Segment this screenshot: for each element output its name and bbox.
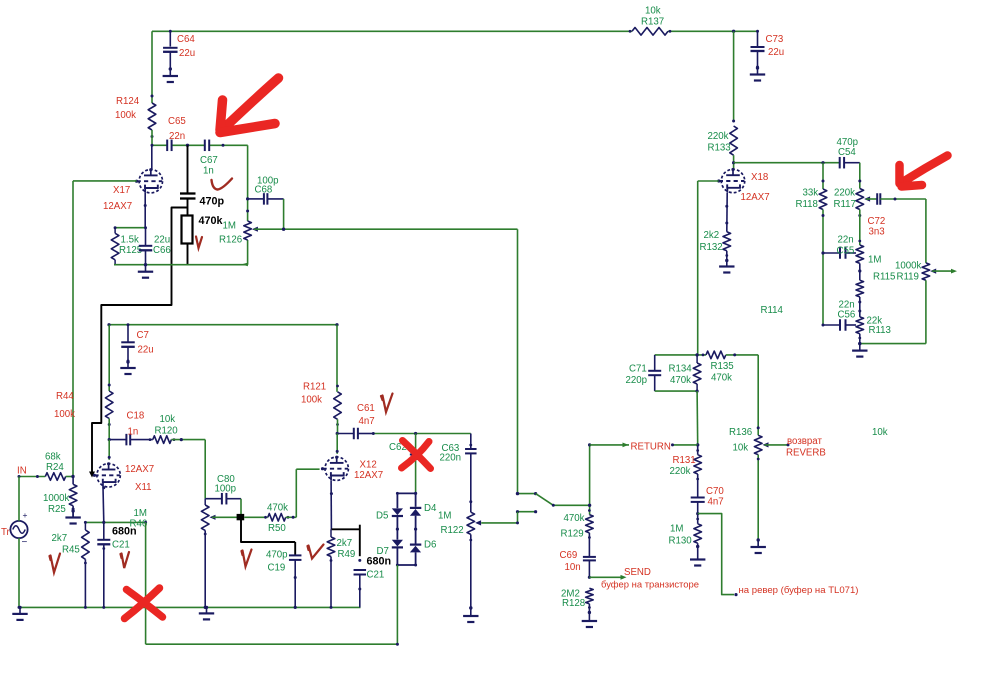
svg-text:12AX7: 12AX7 — [103, 201, 132, 212]
ground under R130 — [697, 547, 699, 560]
wire R24 to grid node — [66, 476, 73, 478]
svg-text:1M: 1M — [223, 221, 236, 232]
svg-text:C66: C66 — [153, 245, 171, 256]
wire R121 to C61 node — [337, 419, 339, 433]
annotation check near R45 — [50, 554, 61, 573]
svg-text:470k: 470k — [564, 513, 585, 524]
capacitor C64 — [169, 31, 171, 46]
wire R118 to C55 C56 — [822, 210, 824, 326]
svg-text:1n: 1n — [203, 166, 214, 177]
svg-text:R121: R121 — [303, 382, 326, 393]
svg-text:IN: IN — [17, 466, 27, 477]
annotation arrow top-left — [220, 78, 279, 133]
capacitor C7 — [127, 325, 129, 342]
svg-text:R45: R45 — [62, 545, 80, 556]
svg-text:22n: 22n — [169, 131, 185, 142]
wire B+ left drop — [151, 31, 153, 103]
wire feedback top row — [655, 354, 706, 356]
wire switch to R129 node — [589, 445, 591, 515]
resistor R130 — [697, 514, 699, 524]
wire rail to R121 — [336, 325, 338, 392]
wire RETURN — [590, 444, 698, 446]
resistor R132 — [723, 232, 731, 251]
svg-text:R131: R131 — [673, 455, 696, 466]
svg-text:C61: C61 — [357, 403, 375, 414]
capacitor C63 — [465, 448, 477, 450]
svg-text:1.5k: 1.5k — [121, 235, 139, 246]
svg-text:22u: 22u — [154, 235, 170, 246]
ground under C73 — [757, 68, 759, 75]
svg-text:10k: 10k — [160, 414, 176, 425]
svg-text:220k: 220k — [834, 188, 855, 199]
potentiometer R119 — [922, 263, 930, 280]
resistor R113 — [856, 317, 864, 334]
svg-text:R137: R137 — [641, 17, 664, 28]
diode D4 — [415, 493, 417, 506]
resistor R115 lower half — [856, 280, 864, 297]
svg-text:C19: C19 — [268, 563, 286, 574]
switch lever — [536, 494, 554, 506]
annotation check near C67 — [212, 179, 233, 190]
ground under tone stack — [859, 344, 861, 351]
resistor R135 — [706, 351, 726, 359]
svg-text:C72: C72 — [868, 216, 886, 227]
wire to R119 — [925, 199, 927, 263]
wire R117 wiper — [866, 198, 877, 200]
svg-text:100k: 100k — [115, 110, 136, 121]
ground under R122 — [470, 608, 472, 616]
svg-text:возврат: возврат — [787, 436, 822, 447]
svg-text:D4: D4 — [424, 503, 437, 514]
svg-text:1M: 1M — [868, 255, 881, 266]
wire to reverb driver — [698, 514, 734, 595]
ground under C64 — [169, 69, 171, 76]
wire X17 cathode — [144, 193, 146, 228]
svg-text:22u: 22u — [768, 47, 784, 58]
wire ground rail bottom — [146, 643, 398, 645]
triode X12 — [336, 434, 338, 454]
wire diode bottom rail — [397, 564, 416, 566]
svg-text:C65: C65 — [168, 116, 186, 127]
capacitor C62 — [410, 454, 422, 456]
wire R119 wiper out — [932, 270, 953, 272]
potentiometer R122 — [467, 512, 475, 534]
svg-text:3n3: 3n3 — [869, 227, 885, 238]
svg-text:X11: X11 — [135, 482, 152, 493]
ground under R46 on rail — [206, 607, 208, 613]
svg-text:1000k: 1000k — [43, 493, 70, 504]
resistor R131 — [697, 445, 699, 455]
svg-text:R113: R113 — [869, 325, 891, 336]
annotation arrow top-right — [900, 156, 948, 187]
svg-text:R50: R50 — [268, 523, 286, 534]
svg-text:C67: C67 — [200, 155, 218, 166]
wire cathode ground rail — [114, 264, 248, 266]
wire X18 grid — [698, 180, 719, 182]
junction diode mid — [396, 528, 399, 531]
triode X17 — [151, 145, 153, 170]
svg-text:R124: R124 — [116, 96, 140, 107]
wire input node — [19, 476, 45, 478]
wire C63 branch — [470, 434, 472, 449]
diode D7 — [396, 529, 398, 540]
svg-text:C18: C18 — [127, 411, 145, 422]
svg-text:R120: R120 — [155, 426, 179, 437]
capacitor C19 — [289, 554, 302, 556]
svg-text:C64: C64 — [177, 34, 195, 45]
annotation check near C21a — [121, 552, 130, 568]
svg-text:R134: R134 — [669, 364, 693, 375]
svg-text:12AX7: 12AX7 — [354, 470, 383, 481]
svg-text:22n: 22n — [838, 235, 854, 246]
svg-text:470k: 470k — [711, 373, 732, 384]
svg-text:1M: 1M — [438, 511, 451, 522]
source Tr — [10, 521, 27, 538]
capacitor C21b — [354, 569, 367, 571]
svg-text:X12: X12 — [360, 460, 377, 471]
capacitor C80 — [205, 498, 222, 500]
wire mod tap to X11 grid — [92, 208, 188, 475]
svg-text:10n: 10n — [565, 562, 581, 573]
wire X11 cathode — [102, 487, 105, 523]
svg-text:R125: R125 — [119, 245, 142, 256]
svg-text:22u: 22u — [179, 48, 195, 59]
wire R122 wiper to switch — [481, 522, 517, 524]
svg-text:X17: X17 — [113, 185, 130, 196]
capacitor C18 — [109, 439, 126, 441]
potentiometer R136 — [754, 435, 762, 454]
wire R135 to R136 — [726, 354, 758, 356]
svg-text:C7: C7 — [137, 330, 149, 341]
svg-text:470p: 470p — [200, 196, 225, 208]
svg-text:4n7: 4n7 — [708, 497, 724, 508]
wire cathode mod rail — [331, 528, 359, 530]
ground under C66 — [145, 265, 147, 272]
svg-text:RETURN: RETURN — [631, 442, 671, 453]
svg-text:D5: D5 — [376, 511, 388, 522]
svg-text:R46: R46 — [130, 519, 148, 530]
svg-text:220p: 220p — [626, 375, 648, 386]
resistor R24 — [45, 473, 65, 481]
wire R46 wiper to junction — [212, 516, 237, 518]
junction mod blob — [237, 514, 245, 520]
ground under C7 — [127, 362, 129, 368]
wire C62 branch — [415, 434, 417, 455]
svg-text:буфер на транзисторе: буфер на транзисторе — [601, 579, 699, 590]
wire feedback bottom row — [655, 390, 697, 392]
capacitor C54 — [839, 157, 841, 169]
wire ground rail left — [19, 606, 361, 608]
wire mod junction to C19 — [241, 517, 295, 542]
capacitor C68 — [248, 198, 264, 200]
capacitor C70 — [697, 474, 699, 497]
ground under R25 — [72, 511, 74, 518]
resistor R133 — [730, 126, 738, 155]
wire R50 to X12 grid — [286, 516, 297, 518]
annotation check near C19 — [308, 545, 324, 559]
wire R133 to anode node — [733, 155, 735, 169]
wire R119 bottom — [925, 280, 927, 343]
svg-text:12AX7: 12AX7 — [741, 192, 770, 203]
diode D6 — [415, 529, 417, 543]
svg-text:220k: 220k — [670, 466, 691, 477]
svg-text:на ревер (буфер на TL071): на ревер (буфер на TL071) — [739, 584, 859, 595]
svg-text:R117: R117 — [834, 199, 856, 210]
switch upper contact — [518, 493, 536, 495]
wire R44 to C18 node — [108, 419, 110, 440]
switch lower contact — [518, 511, 536, 513]
capacitor 470p mod — [180, 192, 196, 194]
svg-text:R130: R130 — [669, 536, 693, 547]
wire tone stack bottom — [860, 343, 926, 345]
svg-text:R115: R115 — [873, 272, 895, 283]
capacitor C61 — [338, 433, 354, 435]
annotation check near R50 — [242, 550, 252, 567]
svg-text:1n: 1n — [128, 427, 139, 438]
svg-text:4n7: 4n7 — [359, 416, 375, 427]
resistor R134 — [696, 355, 698, 363]
triode X11 — [108, 440, 110, 460]
svg-text:10k: 10k — [733, 443, 749, 454]
svg-text:−: − — [22, 537, 28, 548]
svg-text:2k7: 2k7 — [337, 538, 353, 549]
svg-text:R132: R132 — [700, 242, 723, 253]
svg-text:C56: C56 — [838, 310, 856, 321]
svg-text:R24: R24 — [46, 462, 64, 473]
wire R124 to node A — [151, 130, 153, 145]
potentiometer R126 — [244, 221, 252, 240]
svg-text:R44: R44 — [56, 391, 74, 402]
svg-text:REVERB: REVERB — [786, 448, 826, 459]
svg-text:Tr: Tr — [1, 527, 11, 538]
svg-text:470k: 470k — [267, 503, 288, 514]
ground on rail left — [19, 607, 21, 614]
svg-text:D6: D6 — [424, 540, 436, 551]
svg-text:22u: 22u — [138, 345, 154, 356]
svg-text:C70: C70 — [706, 486, 724, 497]
svg-text:1M: 1M — [670, 524, 683, 535]
wire anode row to tone stack — [734, 162, 839, 164]
capacitor C55 — [823, 252, 839, 254]
wire node A row — [152, 144, 167, 146]
potentiometer R117 — [856, 189, 864, 210]
svg-text:470k: 470k — [199, 215, 224, 227]
svg-text:C71: C71 — [629, 364, 647, 375]
svg-text:R128: R128 — [562, 598, 585, 609]
capacitor C66 — [139, 245, 153, 247]
wire reverb send line — [254, 228, 518, 230]
wire diode top rail — [397, 492, 416, 494]
svg-text:10k: 10k — [645, 6, 661, 17]
svg-text:33k: 33k — [803, 188, 819, 199]
svg-text:+: + — [23, 510, 28, 520]
svg-text:C21: C21 — [112, 540, 130, 551]
svg-text:2k2: 2k2 — [704, 230, 720, 241]
resistor R115 — [856, 245, 864, 263]
wire diode to ground rail — [396, 565, 398, 644]
resistor R129 — [586, 515, 594, 533]
diode D5 — [396, 493, 398, 508]
wire cathode rail 2 — [85, 521, 145, 523]
svg-text:68k: 68k — [45, 452, 61, 463]
svg-text:1M: 1M — [134, 508, 147, 519]
ground under R128 — [588, 613, 590, 622]
capacitor C65 — [166, 140, 168, 152]
annotation check near 470k — [196, 237, 202, 249]
ground under R136 — [757, 540, 759, 547]
svg-text:R133: R133 — [708, 143, 731, 154]
capacitor C67 — [204, 140, 206, 152]
resistor R137 — [632, 28, 668, 36]
svg-text:10k: 10k — [872, 427, 888, 438]
wire R120 to stage2 coupling — [171, 439, 205, 441]
svg-text:R118: R118 — [796, 199, 818, 210]
wire X17 grid — [73, 180, 137, 182]
resistor R49 — [330, 529, 332, 537]
wire junction to R50 — [244, 516, 268, 518]
svg-text:2k7: 2k7 — [52, 533, 68, 544]
resistor R44 — [105, 391, 113, 419]
resistor R50 — [268, 514, 286, 522]
wire X12 cathode — [330, 481, 332, 530]
wire C61 output row — [373, 433, 471, 435]
resistor R120 — [153, 436, 172, 444]
ground under R132 — [726, 261, 728, 267]
wire R115 chain — [859, 210, 861, 246]
wire R136 bottom — [757, 455, 759, 546]
resistor R121 — [334, 392, 342, 420]
svg-text:100k: 100k — [54, 409, 75, 420]
svg-text:C73: C73 — [766, 34, 784, 45]
svg-text:D7: D7 — [377, 546, 389, 557]
svg-text:470k: 470k — [670, 375, 691, 386]
svg-text:100k: 100k — [301, 395, 322, 406]
svg-text:R136: R136 — [729, 427, 752, 438]
svg-text:220k: 220k — [708, 131, 729, 142]
annotation X bottom — [125, 588, 163, 619]
wire stage2 supply rail — [109, 324, 337, 326]
svg-text:220n: 220n — [440, 453, 462, 464]
svg-text:R126: R126 — [219, 235, 242, 246]
svg-text:1000k: 1000k — [895, 261, 922, 272]
wire rail to R44 — [108, 325, 110, 391]
svg-text:R135: R135 — [711, 361, 734, 372]
annotation check near C61 — [381, 394, 393, 413]
svg-text:470p: 470p — [266, 550, 288, 561]
svg-text:12AX7: 12AX7 — [125, 464, 154, 475]
capacitor C73 — [757, 31, 759, 46]
svg-text:C54: C54 — [838, 147, 856, 158]
capacitor C69 — [588, 533, 590, 557]
svg-text:SEND: SEND — [624, 567, 651, 578]
wire mod black drop — [187, 145, 189, 193]
svg-text:C69: C69 — [560, 550, 578, 561]
svg-text:X18: X18 — [751, 172, 768, 183]
wire SEND stub — [589, 576, 623, 578]
wire R126 branch — [247, 145, 249, 221]
svg-text:680n: 680n — [367, 556, 392, 568]
resistor R124 — [148, 103, 156, 130]
svg-text:C68: C68 — [255, 185, 273, 196]
potentiometer R46 — [204, 499, 206, 505]
wire X18 cathode — [726, 193, 728, 232]
resistor R25 — [72, 477, 74, 485]
svg-text:100p: 100p — [215, 484, 237, 495]
annotation X over C62 — [402, 441, 431, 469]
svg-text:C21: C21 — [367, 570, 385, 581]
svg-text:R49: R49 — [338, 549, 356, 560]
wire R134 down to RETURN — [696, 391, 699, 445]
resistor R125 — [111, 233, 119, 259]
resistor R128 — [586, 588, 594, 604]
capacitor C71 — [654, 355, 656, 370]
capacitor C56 — [823, 324, 839, 326]
wire R118 branch — [822, 163, 824, 189]
resistor R45 — [84, 522, 86, 530]
capacitor C72 — [876, 193, 878, 205]
svg-text:R122: R122 — [441, 525, 464, 536]
svg-text:R25: R25 — [48, 504, 66, 515]
capacitor C21a — [103, 522, 105, 539]
wire B+ top rail — [152, 30, 632, 32]
svg-text:R119: R119 — [897, 272, 919, 283]
wire R136 wiper out — [764, 444, 788, 446]
svg-text:R114: R114 — [761, 305, 784, 316]
wire B+ to R133 — [733, 31, 735, 121]
wire cathode rail — [115, 227, 145, 229]
resistor 470k mod — [182, 216, 193, 244]
resistor R118 — [819, 189, 827, 210]
triode X18 — [719, 169, 745, 192]
svg-text:C55: C55 — [837, 246, 855, 257]
svg-text:R129: R129 — [561, 529, 584, 540]
